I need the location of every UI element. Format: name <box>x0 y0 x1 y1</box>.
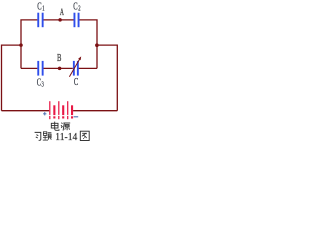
caption char tu (图) <box>80 131 89 140</box>
wire bottom left to battery <box>2 110 50 112</box>
battery cell plate tall 1 <box>49 101 50 115</box>
svg-text:1: 1 <box>42 6 44 13</box>
svg-text:11-14: 11-14 <box>55 131 77 143</box>
wire top branch left segment <box>21 20 37 69</box>
node right junction <box>95 43 99 47</box>
label C3 <box>37 76 44 89</box>
wire middle branch right segment <box>79 67 98 69</box>
battery cell plate short 2 <box>62 105 64 115</box>
capacitor C2 <box>74 13 80 28</box>
svg-text:3: 3 <box>42 82 44 89</box>
battery plus sign <box>43 112 46 115</box>
svg-text:C: C <box>73 0 77 12</box>
svg-text:C: C <box>37 76 41 88</box>
capacitor C3 <box>37 61 43 76</box>
label C1 <box>37 0 44 13</box>
svg-text:2: 2 <box>78 6 80 13</box>
label dian (电) of 电源 <box>51 122 59 131</box>
battery cell plate tall 2 <box>58 101 59 115</box>
label A <box>60 7 64 18</box>
battery cell plate short 1 <box>53 105 55 115</box>
wire right feed to outer loop <box>97 45 117 111</box>
variable capacitor C <box>73 61 79 76</box>
node left junction <box>19 43 23 47</box>
svg-text:B: B <box>57 51 61 63</box>
caption char ti (题) <box>43 132 52 140</box>
wire left feed to outer loop <box>2 45 22 111</box>
label B <box>57 51 61 63</box>
label C (variable) <box>74 75 78 87</box>
wire top branch middle segment <box>44 19 74 21</box>
svg-text:C: C <box>74 75 78 87</box>
svg-text:C: C <box>37 0 41 12</box>
wire middle branch center segment <box>44 67 73 69</box>
wire top branch right segment <box>79 20 97 69</box>
label yuan (源) of 电源 <box>61 123 70 131</box>
node B <box>58 67 62 71</box>
node A <box>58 18 62 22</box>
battery minus sign <box>74 116 79 118</box>
battery cell plate short 3 <box>71 105 73 115</box>
wire middle branch left segment <box>21 67 37 69</box>
svg-text:A: A <box>60 7 64 18</box>
wire bottom right from battery <box>73 110 117 112</box>
label C2 <box>73 0 80 13</box>
battery cell plate tall 3 <box>67 101 68 115</box>
capacitor C1 <box>37 13 43 28</box>
variable capacitor arrow <box>69 56 81 76</box>
caption char xi (习) <box>35 132 41 140</box>
